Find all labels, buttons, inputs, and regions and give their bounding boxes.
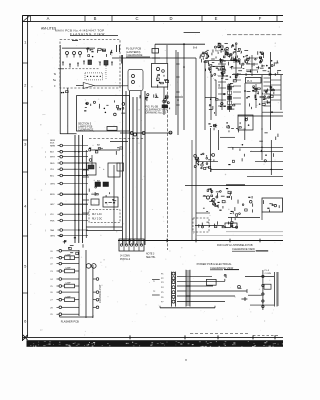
svg-text:LAMP: LAMP bbox=[66, 295, 72, 298]
svg-text:A: A bbox=[47, 16, 50, 21]
svg-text:TAN: TAN bbox=[50, 229, 55, 232]
svg-text:LAMP: LAMP bbox=[66, 253, 72, 256]
svg-text:E: E bbox=[215, 16, 218, 21]
svg-text:CLEARANCE VIEW: CLEARANCE VIEW bbox=[232, 247, 255, 251]
svg-text:BLU: BLU bbox=[50, 176, 55, 178]
svg-text:J4 CONN: J4 CONN bbox=[120, 256, 130, 258]
svg-text:NRM: NRM bbox=[50, 146, 55, 148]
svg-text:BRN: BRN bbox=[50, 194, 55, 196]
svg-text:LAMP: LAMP bbox=[66, 282, 72, 285]
svg-text:BLK: BLK bbox=[50, 152, 55, 154]
svg-text:FLASHER PCB: FLASHER PCB bbox=[61, 320, 79, 324]
svg-text:C: C bbox=[135, 16, 138, 21]
svg-text:FLASHING VIEW: FLASHING VIEW bbox=[70, 32, 105, 36]
svg-text:CLEARANCE: CLEARANCE bbox=[78, 129, 94, 132]
svg-text:GRY: GRY bbox=[50, 204, 55, 206]
svg-text:VIO: VIO bbox=[50, 214, 54, 216]
svg-text:PL-3: PL-3 bbox=[265, 270, 270, 272]
svg-text:CONTROL POT: CONTROL POT bbox=[98, 284, 102, 303]
svg-text:POWER PCB & ELECTRICAL: POWER PCB & ELECTRICAL bbox=[197, 262, 233, 266]
svg-text:SEE TBL: SEE TBL bbox=[146, 257, 156, 259]
svg-text:CLEARANCE: CLEARANCE bbox=[126, 53, 143, 57]
svg-text:PCB No.2: PCB No.2 bbox=[120, 259, 131, 261]
svg-text:B: B bbox=[94, 16, 97, 21]
svg-text:/BLK: /BLK bbox=[50, 143, 55, 145]
svg-text:RLY 2 DC: RLY 2 DC bbox=[92, 219, 102, 221]
svg-text:RUN LMP & LNTRNBELD PCB: RUN LMP & LNTRNBELD PCB bbox=[217, 243, 253, 247]
svg-text:RED: RED bbox=[50, 163, 55, 165]
svg-text:NOTE 3: NOTE 3 bbox=[146, 254, 155, 256]
svg-text:ORN: ORN bbox=[50, 184, 55, 186]
svg-text:CONN: CONN bbox=[265, 273, 272, 275]
svg-text:B+6: B+6 bbox=[193, 48, 198, 50]
svg-text:F: F bbox=[259, 16, 262, 21]
svg-text:WHT: WHT bbox=[50, 157, 56, 159]
svg-text:PNK: PNK bbox=[50, 221, 55, 223]
svg-text:D: D bbox=[169, 16, 172, 21]
svg-text:RLY 1 AC: RLY 1 AC bbox=[92, 213, 102, 216]
svg-text:PL-5: PL-5 bbox=[247, 81, 253, 83]
svg-text:GRN: GRN bbox=[50, 236, 55, 238]
svg-text:LAMP: LAMP bbox=[66, 267, 72, 270]
